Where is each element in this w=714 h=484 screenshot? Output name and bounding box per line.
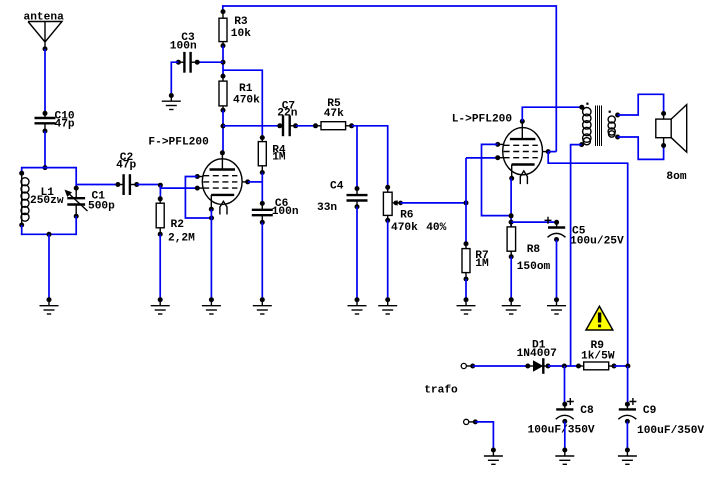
wire tank loop top: [22, 167, 76, 169]
ground (C4): [348, 297, 367, 314]
wire junction down to C9: [627, 366, 629, 404]
svg-text:40%: 40%: [426, 222, 446, 234]
resistor R4 1M: [258, 135, 286, 175]
svg-text:1M: 1M: [272, 152, 286, 164]
wire R5 to C4 and R6 columns: [352, 126, 388, 188]
wire C10 to tank top: [44, 131, 46, 168]
node C7 junction: [221, 124, 226, 129]
svg-text:100uF/350V: 100uF/350V: [528, 425, 595, 437]
wire R4 to C6: [261, 173, 263, 204]
terminal trafo lower: [464, 419, 478, 424]
svg-text:33n: 33n: [317, 202, 337, 214]
wire tank bottom to ground: [48, 234, 50, 299]
wire V2 control grid horizontal: [466, 157, 498, 159]
resistor R5 47k: [313, 98, 354, 130]
inductor L1 250zw: [19, 171, 64, 228]
svg-text:22n: 22n: [277, 107, 297, 119]
wire V2 cathode down to R8: [510, 178, 512, 227]
wire secondary top to speaker: [618, 94, 664, 115]
capacitor C10 47p: [35, 111, 75, 134]
svg-text:8om: 8om: [666, 171, 686, 183]
wire junction to C5: [511, 221, 556, 223]
wire C3 to junction: [197, 61, 223, 63]
svg-text:C4: C4: [330, 181, 344, 193]
ground (trafo lower): [484, 448, 503, 465]
terminal trafo upper: [424, 363, 475, 396]
wire tank loop left upper: [21, 167, 23, 173]
capacitor C9 100uF/350V electrolytic: [618, 398, 704, 437]
svg-text:1k/5W: 1k/5W: [581, 351, 615, 363]
resistor R7 1M: [462, 241, 489, 281]
svg-text:R8: R8: [527, 244, 541, 256]
node C3 junction: [221, 60, 226, 65]
svg-text:250zw: 250zw: [30, 195, 64, 207]
wire V1 suppressor grid tie to cathode: [185, 177, 211, 219]
wire B+ top rail: [223, 6, 557, 152]
ground (C6): [253, 297, 272, 314]
wire C7 to R5: [296, 125, 316, 127]
capacitor C8 100uF/350V electrolytic: [528, 398, 595, 437]
warning triangle: [586, 306, 613, 330]
node tank bottom junction: [47, 232, 52, 237]
node tank top junction: [43, 165, 48, 170]
wire R3 to R1: [222, 46, 224, 76]
wire V2 screen to B+ rail: [548, 151, 556, 153]
wire R6 wiper to V2 grid: [401, 202, 466, 204]
svg-text:C9: C9: [643, 405, 657, 417]
svg-text:150om: 150om: [517, 261, 551, 273]
wire junction down to C8: [564, 366, 566, 404]
ground (tank): [40, 297, 59, 314]
ground (R2): [151, 297, 170, 314]
svg-text:470k: 470k: [391, 222, 418, 234]
capacitor C4 33n: [317, 181, 368, 215]
wire R1 to tube V1 plate: [222, 110, 224, 153]
wire terminal to D1: [473, 365, 528, 367]
capacitor C6 100n: [252, 198, 299, 225]
wire terminal to ground: [475, 422, 493, 450]
resistor R3 10k: [219, 9, 251, 48]
svg-text:100u/25V: 100u/25V: [570, 236, 624, 248]
node V1 cathode junction: [209, 216, 214, 221]
ground (V1 cathode): [202, 297, 221, 314]
tube V2 L->PFL200: [452, 114, 551, 185]
wire R9 to C9 node: [614, 365, 628, 367]
ground (R7): [457, 297, 476, 314]
wire secondary bottom to speaker: [618, 137, 664, 159]
wire tank loop right lower: [75, 216, 77, 235]
svg-text:R1: R1: [239, 83, 253, 95]
wire R4 feed from C3 node: [223, 70, 262, 137]
node rectifier junction (C8 tap): [562, 364, 567, 369]
wire V1 cathode to ground: [210, 209, 212, 300]
antenna: [24, 12, 65, 52]
resistor R2 2,2M: [156, 196, 195, 244]
capacitor C7 22n: [277, 101, 298, 137]
svg-text:100n: 100n: [170, 41, 197, 53]
node filtered B+ junction: [625, 364, 630, 369]
capacitor C2 47p: [115, 152, 139, 195]
svg-text:100uF/350V: 100uF/350V: [637, 425, 704, 437]
svg-text:47p: 47p: [116, 160, 136, 172]
svg-text:R6: R6: [400, 210, 414, 222]
wire tank loop left lower: [21, 225, 23, 235]
svg-text:R3: R3: [234, 16, 248, 28]
wire V2 suppressor tie to cathode: [482, 144, 512, 215]
ground (C8): [555, 448, 574, 465]
wire junction to C7: [223, 125, 280, 127]
svg-text:47p: 47p: [55, 119, 75, 131]
tube V1 F->PFL200: [148, 137, 250, 215]
svg-text:C8: C8: [580, 405, 594, 417]
ground (R8): [502, 297, 521, 314]
wire R2 to ground: [159, 234, 161, 300]
resistor R8 150om: [507, 222, 550, 273]
wire tank loop bottom: [21, 233, 76, 235]
node wiper junction: [464, 200, 469, 205]
wire tank loop right upper: [75, 167, 77, 188]
svg-text:500p: 500p: [88, 201, 115, 213]
diode D1 1N4007: [517, 340, 557, 374]
wire C6 to ground: [261, 222, 263, 299]
svg-text:1M: 1M: [475, 258, 489, 270]
ground (C5): [547, 297, 566, 314]
capacitor C1 500p (variable): [65, 186, 116, 219]
wire C5 to ground: [556, 240, 558, 300]
wire down to C4: [356, 126, 358, 189]
svg-text:10k: 10k: [231, 28, 251, 40]
ground (C9): [618, 448, 637, 465]
node C5 junction: [509, 220, 514, 225]
svg-text:F->PFL200: F->PFL200: [148, 137, 209, 149]
potentiometer R6 470k 40%: [383, 185, 446, 234]
wire R7 to ground: [465, 279, 467, 300]
svg-text:trafo: trafo: [424, 385, 458, 397]
svg-text:L->PFL200: L->PFL200: [452, 114, 513, 126]
svg-text:470k: 470k: [233, 95, 260, 107]
wire C9 to ground: [626, 421, 628, 450]
wire V2 plate to transformer primary: [522, 107, 582, 121]
svg-text:R2: R2: [171, 219, 185, 231]
svg-text:2,2M: 2,2M: [168, 233, 195, 245]
svg-text:47k: 47k: [324, 108, 344, 120]
ground (R6): [378, 297, 397, 314]
wire D1 to R9: [548, 365, 579, 367]
wire V1 screen to R4/C6 node: [248, 181, 263, 183]
svg-text:100n: 100n: [272, 206, 299, 218]
svg-text:1N4007: 1N4007: [517, 348, 557, 360]
wire C4 to ground: [356, 207, 358, 300]
resistor R9 1k/5W: [576, 340, 617, 370]
capacitor C5 100u/25V electrolytic: [545, 217, 624, 248]
node grid junction: [158, 183, 163, 188]
wire R6 to ground: [387, 220, 389, 299]
capacitor C3 100n: [170, 32, 200, 73]
wire C3 to ground: [171, 62, 178, 95]
wire primary bottom to rectifier node: [571, 145, 582, 366]
wire screen node to filtered B+: [548, 152, 628, 366]
resistor R1 470k: [219, 74, 260, 113]
wire V2 control grid down to R7: [465, 158, 467, 244]
node suppressor junction: [509, 213, 514, 218]
ground (C3): [162, 93, 181, 110]
wire grid node down to R2: [159, 185, 161, 199]
wire tank to C2: [76, 184, 118, 186]
wire C8 to ground: [564, 421, 566, 450]
wire antenna to C10: [44, 49, 46, 113]
wire C2 to grid node: [137, 185, 198, 189]
wire R8 to ground: [510, 257, 512, 300]
transformer TR1: [579, 103, 620, 148]
speaker 8om: [656, 105, 687, 183]
svg-text:antena: antena: [24, 12, 65, 24]
